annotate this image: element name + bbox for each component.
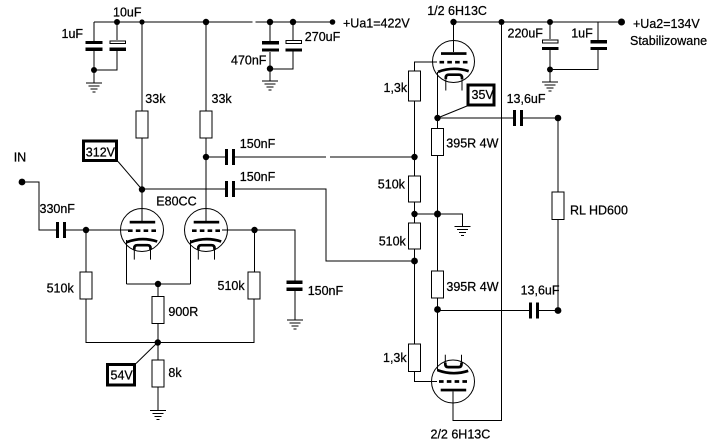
wire C5 bottom lead [549, 50, 551, 82]
wire C5 top lead [549, 22, 551, 39]
svg-text:510k: 510k [379, 235, 407, 249]
svg-text:330nF: 330nF [40, 202, 76, 216]
tube V1b E80CC triode 2 [185, 209, 228, 260]
wire R1 33k top lead [141, 22, 143, 111]
ground G4 [287, 320, 303, 329]
svg-text:150nF: 150nF [240, 170, 276, 184]
wire C3 top lead [269, 22, 271, 42]
svg-text:510k: 510k [378, 178, 406, 192]
wire V2 plate lead [453, 22, 455, 52]
junction dot rail R2 [203, 19, 209, 25]
wire C9 to lower output grid chain [235, 189, 415, 261]
wire R1 to V1a plate [141, 138, 143, 222]
junction dot V2 cathode node 35V [434, 115, 440, 121]
wire C7 to V1a grid [66, 229, 128, 231]
terminal dot +Ua2 [618, 19, 625, 26]
junction dot cathode bus [155, 281, 161, 287]
junction dot V1b plate node [203, 154, 209, 160]
junction dot upper grid node [411, 154, 417, 160]
wire R5 900R top lead [157, 284, 159, 297]
wire top-left supply rail [94, 21, 253, 23]
resistor R3 510k [80, 272, 92, 299]
resistor R4 510k [248, 272, 260, 299]
resistor R7 1,3k [409, 71, 421, 101]
junction dot V1b grid node [251, 227, 257, 233]
svg-text:150nF: 150nF [240, 137, 276, 151]
wire C8 to upper output grid chain [235, 156, 326, 158]
wire output node to C11 [438, 117, 514, 119]
wire V2 grid to R7 [415, 62, 438, 71]
resistor R6 8k [152, 360, 164, 387]
leader line 312V [118, 162, 142, 190]
junction dot C1 C2 ground [91, 67, 97, 73]
capacitor C5 220uF electrolytic [542, 40, 559, 50]
svg-text:220uF: 220uF [508, 27, 544, 41]
resistor RL HD600 [552, 192, 564, 220]
capacitor C1 1uF [86, 41, 103, 51]
capacitor C10 150nF [287, 281, 303, 292]
svg-text:2/2 6H13C: 2/2 6H13C [431, 428, 491, 442]
junction dot grid-chain midpoint [411, 211, 417, 217]
svg-text:+Ua1=422V: +Ua1=422V [343, 17, 410, 31]
junction dot rail R1 [139, 19, 144, 24]
wire R7 bottom to node [414, 101, 416, 176]
junction dot cathode-chain midpoint [434, 211, 441, 218]
leader line 35V [438, 106, 468, 118]
wire C12 to RL bottom [539, 310, 558, 312]
wire C6 top lead [597, 22, 599, 40]
wire V1b cathode lead [190, 240, 192, 284]
svg-text:1,3k: 1,3k [383, 351, 407, 365]
ground G1 [86, 83, 102, 92]
terminal dot +Ua1 [330, 19, 336, 25]
wire R11 bottom to R12 top [437, 156, 439, 272]
svg-text:1uF: 1uF [571, 27, 593, 41]
svg-text:1uF: 1uF [62, 27, 84, 41]
wire C6 bottom lead [550, 50, 598, 70]
resistor R10 1,3k [409, 344, 421, 372]
ground G2 [262, 81, 278, 90]
wire R5 bottom lead [157, 324, 159, 343]
ground G5 [455, 226, 471, 235]
wire C10 bottom to ground [294, 291, 296, 320]
wire node down to R4 [254, 230, 256, 272]
capacitor C9 150nF [225, 181, 235, 197]
tube V2 1/2 6H13C [433, 41, 475, 91]
svg-text:RL HD600: RL HD600 [570, 204, 628, 218]
capacitor C6 1uF [590, 40, 607, 50]
capacitor C7 330nF [56, 222, 66, 238]
junction dot V1a grid [83, 227, 89, 233]
svg-text:395R 4W: 395R 4W [446, 137, 498, 151]
capacitor C8 150nF [225, 149, 235, 165]
resistor R8 510k [409, 176, 421, 202]
svg-text:8k: 8k [168, 366, 182, 380]
svg-text:33k: 33k [145, 92, 166, 106]
wire IN terminal to C7 [22, 182, 56, 230]
wire RL bottom lead [557, 220, 559, 311]
svg-text:10uF: 10uF [113, 6, 142, 20]
wire C4 top lead [292, 22, 294, 40]
junction dot rail C2 [114, 19, 120, 25]
wire lower output node to C12 [438, 310, 530, 312]
wire R3 bottom to cathode-bias node [86, 299, 254, 343]
label box 54V [108, 365, 135, 386]
wire R6 bottom lead to ground [157, 387, 159, 411]
ground G3 [150, 411, 166, 420]
junction dot rail C3 [267, 19, 273, 25]
ground G6 [542, 82, 558, 91]
label box 35V [468, 85, 494, 105]
svg-text:IN: IN [14, 151, 27, 165]
tube V3 2/2 6H13C inverted [432, 355, 475, 403]
wire grid node down to R3 [85, 230, 87, 272]
wire R10 bottom to V3 grid [415, 372, 438, 382]
svg-text:900R: 900R [168, 305, 198, 319]
svg-text:33k: 33k [212, 92, 233, 106]
svg-text:E80CC: E80CC [156, 195, 196, 209]
junction dot RL top [555, 115, 562, 122]
svg-text:312V: 312V [86, 146, 116, 160]
junction dot C5 C6 ground [547, 67, 553, 73]
svg-text:510k: 510k [47, 282, 75, 296]
wire R9 bottom to R10 [414, 249, 416, 344]
wire C1 top lead [93, 22, 95, 42]
svg-text:510k: 510k [218, 279, 246, 293]
wire R6 8k top lead [157, 343, 159, 361]
capacitor C4 270uF electrolytic [285, 41, 302, 52]
wire V1b plate to C8 [206, 156, 225, 158]
junction dot rail C5 [547, 19, 553, 25]
svg-text:270uF: 270uF [305, 30, 341, 44]
junction dot lower grid node [411, 258, 418, 265]
wire R2 to V1b plate [205, 138, 207, 222]
capacitor C3 470nF [262, 41, 279, 52]
junction dot RL bottom [555, 307, 562, 314]
wire top-right supply rail [453, 21, 622, 23]
junction dot C3 C4 ground [267, 65, 273, 71]
wire C11 to RL top [523, 117, 558, 119]
wire R2 33k top lead [205, 22, 207, 111]
terminal dot IN [19, 179, 26, 186]
wire midpoint to ground stub [415, 214, 463, 227]
svg-text:13,6uF: 13,6uF [521, 284, 560, 298]
svg-text:1/2 6H13C: 1/2 6H13C [427, 4, 487, 18]
wire R8 to R9 [414, 202, 416, 223]
wire R12 bottom to V3 cathode [437, 298, 439, 371]
junction dot V3 cathode node [434, 306, 441, 313]
capacitor C12 13,6uF [529, 303, 539, 319]
resistor R9 510k [409, 223, 421, 249]
svg-text:150nF: 150nF [308, 284, 344, 298]
tube V1a E80CC triode 1 [121, 209, 164, 260]
resistor R1 33k [136, 111, 148, 138]
wire C4 bottom lead [270, 51, 293, 69]
wire V2 cathode lead down [437, 72, 439, 129]
wire V1a plate to C9 [142, 188, 225, 190]
wire V1b grid to node [222, 229, 255, 231]
junction dot rail C4 [290, 19, 296, 25]
svg-text:Stabilizowane: Stabilizowane [630, 34, 707, 48]
capacitor C2 10uF electrolytic [110, 41, 127, 51]
capacitor C11 13,6uF [513, 110, 523, 126]
junction dot V2 plate [450, 19, 456, 25]
svg-text:54V: 54V [111, 368, 134, 382]
resistor R12 395R 4W [432, 271, 444, 298]
junction dot rail V3 [499, 19, 505, 25]
wire RL top lead [557, 118, 559, 192]
wire C1 bottom lead [93, 51, 95, 83]
resistor R11 395R 4W [432, 129, 444, 156]
resistor R5 900R [152, 297, 164, 324]
leader line 54V [136, 343, 158, 364]
wire C3 bottom lead [269, 52, 271, 81]
svg-text:35V: 35V [472, 88, 495, 102]
wire C2 bottom lead [94, 51, 117, 70]
wire V1a cathode lead [126, 240, 128, 284]
junction dot V1a plate node 312V [139, 186, 145, 192]
svg-text:13,6uF: 13,6uF [507, 92, 546, 106]
svg-text:+Ua2=134V: +Ua2=134V [633, 17, 700, 31]
svg-text:1,3k: 1,3k [384, 81, 408, 95]
svg-text:470nF: 470nF [231, 53, 267, 67]
junction dot bias node 54V [155, 339, 161, 345]
label box 312V [84, 141, 117, 161]
wire C2 top lead [116, 22, 118, 40]
wire V3 plate rail to +Ua2 [453, 22, 502, 421]
wire cathode bus [127, 283, 191, 285]
svg-text:395R 4W: 395R 4W [446, 280, 498, 294]
wire node to C10 [255, 230, 296, 281]
resistor R2 33k [200, 111, 212, 138]
